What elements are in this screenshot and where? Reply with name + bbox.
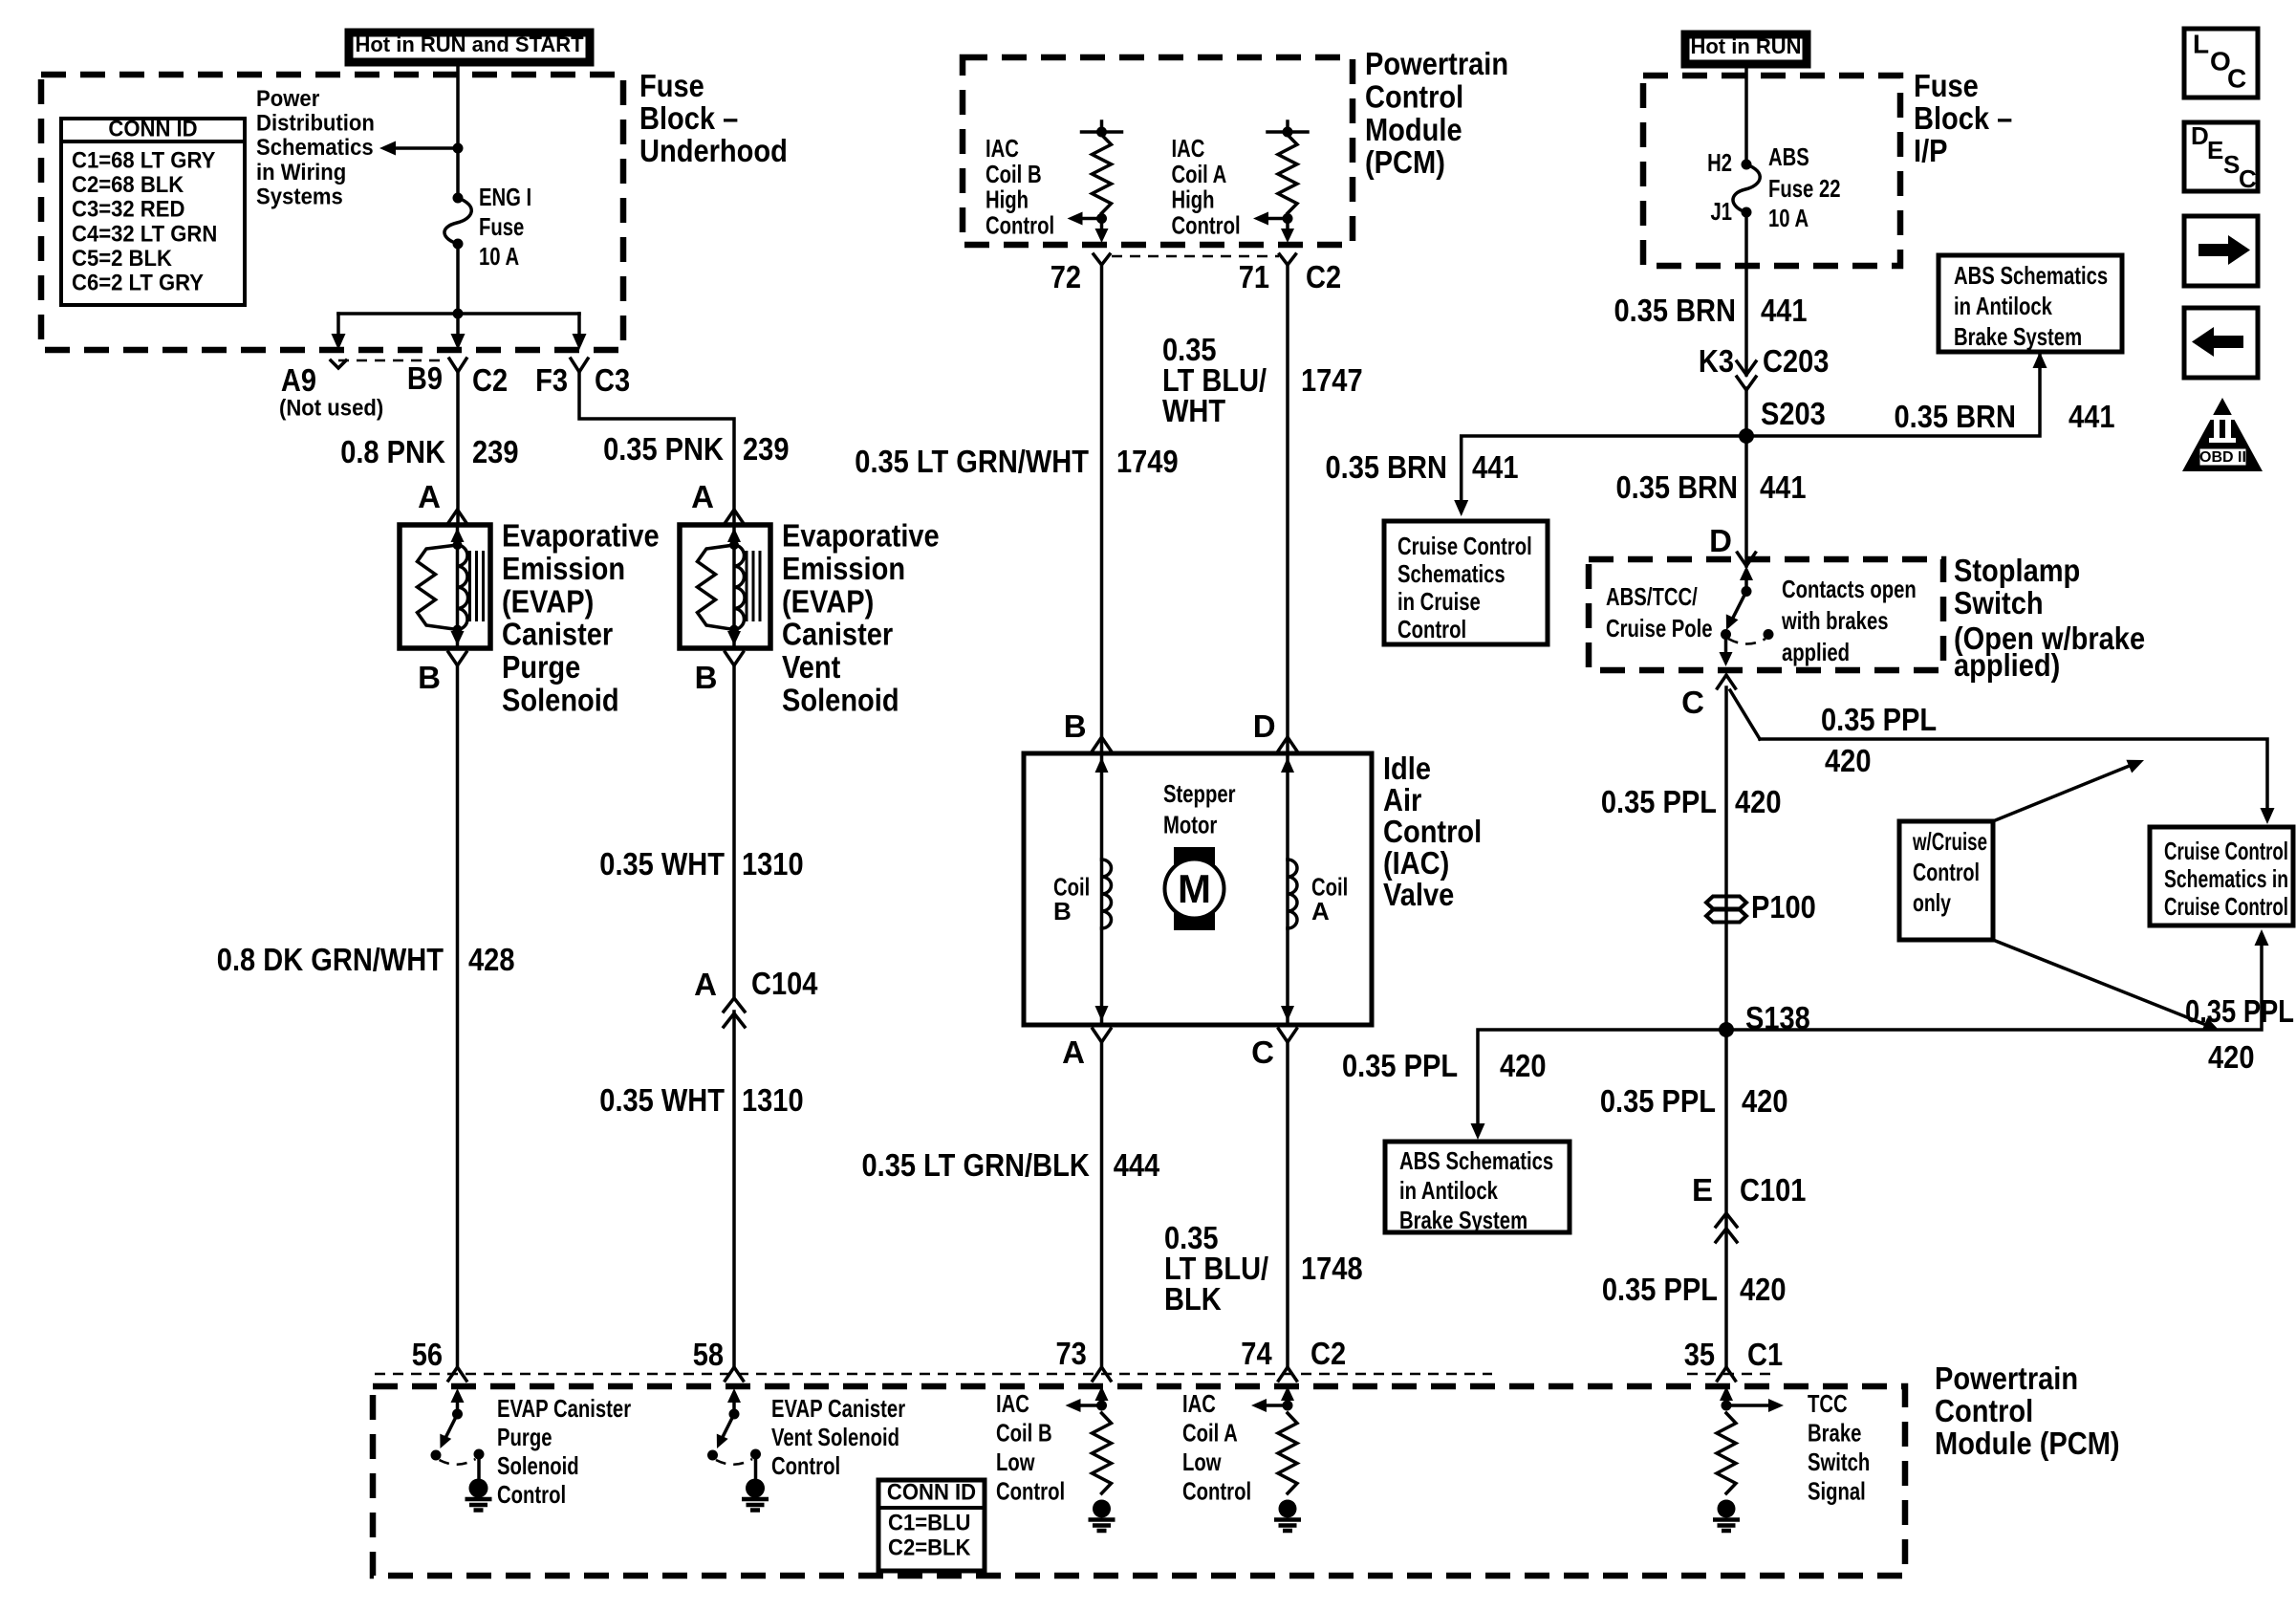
wire IAC coil A low (1748) — [1286, 1042, 1289, 1367]
sense arrow right — [1726, 1404, 1770, 1407]
svg-text:B: B — [1053, 897, 1072, 925]
svg-text:Block –: Block – — [639, 100, 738, 136]
svg-text:Canister: Canister — [782, 617, 893, 652]
thin dashed connector line A9-B9 — [338, 359, 447, 362]
svg-text:58: 58 — [693, 1337, 724, 1372]
svg-text:Power: Power — [256, 86, 319, 112]
svg-text:1749: 1749 — [1116, 444, 1179, 479]
label box: Hot in RUN and START — [349, 33, 590, 62]
connector chevron IAC pin C — [1279, 1029, 1297, 1042]
svg-text:A: A — [418, 479, 441, 514]
svg-text:IAC: IAC — [1172, 134, 1205, 163]
svg-text:Distribution: Distribution — [256, 111, 375, 137]
switch output arrow — [1724, 635, 1728, 653]
wire: fuse output to splice — [456, 244, 460, 314]
svg-text:C: C — [1681, 685, 1704, 720]
thin dashed connector line C2 (bottom) — [375, 1373, 1492, 1376]
svg-text:Control: Control — [1397, 615, 1466, 643]
reference box: ABS Schematics in Antilock Brake System (lower) — [1385, 1142, 1570, 1232]
svg-text:OBD II: OBD II — [2199, 449, 2246, 466]
svg-text:in Antilock: in Antilock — [1399, 1176, 1498, 1205]
svg-text:J1: J1 — [1711, 197, 1733, 226]
connector chevron PCM pin 35 — [1718, 1367, 1736, 1381]
svg-text:D: D — [2191, 121, 2209, 150]
connector chevron at vent solenoid pin A — [726, 510, 744, 523]
icon OBD II triangle — [2182, 398, 2263, 471]
splice S203 — [1739, 428, 1754, 444]
svg-text:C2: C2 — [472, 362, 508, 398]
icon box arrow right — [2184, 216, 2258, 286]
svg-text:Signal: Signal — [1808, 1477, 1866, 1506]
reference box: Cruise Control Schematics in Cruise Control — [1384, 521, 1548, 644]
svg-text:IAC: IAC — [1182, 1389, 1216, 1418]
arrow feed F3 — [577, 314, 581, 336]
svg-text:420: 420 — [2208, 1039, 2255, 1075]
svg-text:C1=68 LT GRY: C1=68 LT GRY — [72, 148, 215, 174]
svg-text:0.35 BRN: 0.35 BRN — [1895, 399, 2017, 434]
svg-text:C: C — [2239, 164, 2257, 193]
coil B winding — [1102, 860, 1112, 928]
svg-text:441: 441 — [1761, 293, 1808, 328]
wire purge B down to PCM pin 56 — [456, 665, 460, 1367]
svg-text:in Antilock: in Antilock — [1954, 292, 2052, 320]
branch wire to cruise control schematics (top right) — [1760, 739, 2267, 811]
svg-text:441: 441 — [1760, 469, 1807, 505]
connector chevron IAC pin D — [1279, 737, 1297, 751]
svg-text:A9: A9 — [281, 362, 316, 398]
IAC inner wire coil B side — [1100, 753, 1104, 1025]
svg-text:Air: Air — [1383, 782, 1421, 817]
svg-text:444: 444 — [1114, 1147, 1160, 1183]
svg-text:Control: Control — [986, 210, 1054, 239]
switch contact dot — [431, 1450, 442, 1461]
pull resistor — [1093, 1413, 1112, 1493]
svg-text:0.35 PPL: 0.35 PPL — [1342, 1048, 1458, 1083]
svg-text:0.8 DK GRN/WHT: 0.8 DK GRN/WHT — [217, 942, 444, 977]
svg-text:Cruise Control: Cruise Control — [1397, 532, 1532, 560]
svg-text:Evaporative: Evaporative — [782, 518, 940, 554]
svg-text:B: B — [695, 660, 718, 695]
svg-text:applied): applied) — [1954, 647, 2060, 683]
svg-text:420: 420 — [1742, 1083, 1788, 1119]
svg-text:0.35 PPL: 0.35 PPL — [1602, 1272, 1718, 1307]
svg-text:IAC: IAC — [986, 134, 1019, 163]
svg-text:Powertrain: Powertrain — [1935, 1361, 2078, 1396]
svg-text:10 A: 10 A — [479, 242, 519, 271]
wire S203 right branch to ABS schematics — [1746, 356, 2040, 436]
node dot and sense arrow — [1283, 213, 1293, 224]
svg-text:Fuse: Fuse — [1914, 68, 1979, 103]
connector chevron pin B — [448, 652, 466, 665]
driver switch feed arrow — [732, 1398, 736, 1414]
switch contact dot — [707, 1450, 718, 1461]
thin dashed connector line C1 (bottom) — [1687, 1373, 1773, 1376]
inline connector C104 chevrons — [724, 998, 745, 1012]
dashed throw arc — [440, 1459, 476, 1465]
svg-text:56: 56 — [412, 1337, 443, 1372]
stoplamp switch dashed box — [1589, 559, 1943, 670]
svg-text:Systems: Systems — [256, 184, 343, 209]
wire S138 right branch to cruise control schematics — [1726, 945, 2262, 1030]
svg-text:ABS Schematics: ABS Schematics — [1399, 1146, 1553, 1175]
wire S138 left branch to ABS schematics — [1478, 1030, 1726, 1124]
svg-text:71: 71 — [1239, 259, 1269, 294]
solenoid coil — [458, 545, 468, 630]
svg-text:C5=2 BLK: C5=2 BLK — [72, 246, 173, 272]
svg-text:0.35 WHT: 0.35 WHT — [599, 1082, 725, 1118]
connector chevron at PCM top — [1280, 254, 1296, 265]
svg-text:ENG I: ENG I — [479, 183, 531, 211]
wire below C104 to pin 58 — [732, 1012, 736, 1367]
pass-through grommet P100 — [1706, 897, 1746, 909]
svg-text:10 A: 10 A — [1768, 204, 1809, 232]
svg-text:Block –: Block – — [1914, 100, 2012, 136]
fuse ABS Fuse 22 10 A — [1742, 160, 1752, 170]
junction below ENG I fuse — [453, 309, 464, 319]
connector chevron B9/C2 — [449, 359, 466, 372]
svg-text:1310: 1310 — [742, 846, 804, 882]
svg-text:420: 420 — [1740, 1272, 1787, 1307]
svg-text:C104: C104 — [751, 966, 818, 1001]
svg-text:BLK: BLK — [1164, 1281, 1222, 1317]
svg-text:C6=2 LT GRY: C6=2 LT GRY — [72, 271, 204, 296]
sense arrow left — [1265, 1404, 1288, 1407]
svg-text:239: 239 — [743, 431, 790, 467]
ground — [1279, 1500, 1297, 1518]
pull resistor — [1717, 1413, 1736, 1493]
EVAP solenoid box — [400, 525, 490, 648]
svg-text:Control: Control — [1935, 1393, 2033, 1428]
sense feed arrow — [1724, 1398, 1728, 1405]
svg-text:S203: S203 — [1761, 396, 1826, 431]
icon box arrow left — [2184, 308, 2258, 378]
svg-text:F3: F3 — [535, 362, 568, 398]
svg-text:239: 239 — [472, 434, 519, 469]
svg-text:Idle: Idle — [1383, 751, 1431, 786]
svg-text:Canister: Canister — [502, 617, 613, 652]
svg-text:1748: 1748 — [1301, 1251, 1363, 1286]
svg-text:Stepper: Stepper — [1163, 779, 1236, 808]
connector chevron IAC pin B — [1093, 737, 1111, 751]
svg-text:M: M — [1178, 866, 1211, 911]
switch pivot dot — [452, 1409, 463, 1420]
svg-text:Coil B: Coil B — [996, 1419, 1052, 1448]
reference box: w/Cruise Control only — [1899, 821, 1993, 940]
svg-text:Control: Control — [1913, 858, 1980, 886]
wire pin C down to PCM pin 35 — [1724, 687, 1728, 1367]
svg-text:Brake System: Brake System — [1399, 1206, 1527, 1234]
solenoid resistance element — [698, 545, 735, 630]
svg-text:B9: B9 — [407, 360, 443, 396]
svg-text:A: A — [1311, 897, 1330, 925]
arrow feed B9 — [456, 314, 460, 336]
sense feed arrow — [1100, 1398, 1104, 1405]
node: tap to power distribution schematics — [453, 143, 464, 154]
svg-text:C: C — [2227, 63, 2246, 93]
svg-text:CONN ID: CONN ID — [887, 1480, 976, 1506]
svg-text:Purge: Purge — [502, 649, 580, 685]
wire S203 left branch to cruise control schematics — [1462, 436, 1746, 501]
solenoid core bars — [746, 551, 748, 621]
connector chevron IAC pin A — [1093, 1029, 1111, 1042]
thin dashed connector line at PCM top — [1112, 255, 1279, 258]
svg-text:0.35 LT GRN/BLK: 0.35 LT GRN/BLK — [862, 1147, 1090, 1183]
driver resistor (high control) — [1093, 135, 1112, 213]
svg-text:Vent Solenoid: Vent Solenoid — [771, 1423, 899, 1451]
svg-text:H2: H2 — [1707, 148, 1732, 177]
svg-text:Control: Control — [497, 1480, 566, 1509]
svg-text:Purge: Purge — [497, 1423, 552, 1451]
svg-text:Control: Control — [771, 1451, 840, 1480]
switch pivot dot — [729, 1409, 740, 1420]
svg-text:C203: C203 — [1763, 343, 1829, 379]
svg-text:EVAP Canister: EVAP Canister — [497, 1394, 631, 1423]
svg-text:Fuse 22: Fuse 22 — [1768, 174, 1841, 203]
svg-text:C2: C2 — [1306, 259, 1341, 294]
connector chevron pin B — [726, 652, 744, 665]
svg-text:Cruise Control: Cruise Control — [2164, 837, 2288, 865]
solenoid inner wire with arrows — [732, 525, 736, 648]
svg-text:CONN ID: CONN ID — [108, 117, 197, 142]
svg-text:D: D — [1253, 708, 1276, 744]
connector chevron at PCM top — [1094, 254, 1110, 265]
svg-text:Coil A: Coil A — [1172, 160, 1227, 188]
svg-text:1310: 1310 — [742, 1082, 804, 1118]
svg-text:ABS Schematics: ABS Schematics — [1954, 261, 2108, 290]
svg-text:w/Cruise: w/Cruise — [1912, 827, 1987, 856]
svg-text:B: B — [418, 660, 441, 695]
svg-text:Hot in RUN: Hot in RUN — [1690, 34, 1801, 58]
svg-text:WHT: WHT — [1162, 393, 1225, 428]
svg-text:Brake: Brake — [1808, 1419, 1861, 1448]
svg-text:Schematics in: Schematics in — [2164, 864, 2288, 893]
svg-text:0.35 BRN: 0.35 BRN — [1326, 449, 1448, 485]
connector chevron PCM pin 74 — [1279, 1367, 1297, 1381]
solenoid winding nodes — [729, 540, 739, 550]
CONN ID table (underhood) — [61, 119, 245, 305]
internal node bar — [1100, 121, 1104, 132]
svg-text:(PCM): (PCM) — [1365, 144, 1445, 180]
svg-text:Valve: Valve — [1383, 877, 1454, 912]
svg-text:in Cruise: in Cruise — [1397, 587, 1481, 616]
svg-text:0.35 WHT: 0.35 WHT — [599, 846, 725, 882]
svg-text:72: 72 — [1051, 259, 1081, 294]
svg-text:Switch: Switch — [1808, 1448, 1870, 1476]
svg-text:(EVAP): (EVAP) — [782, 583, 874, 619]
svg-text:A: A — [691, 479, 714, 514]
reference box: ABS Schematics in Antilock Brake System — [1939, 255, 2122, 352]
solenoid core bars — [468, 551, 471, 621]
svg-text:C3: C3 — [595, 362, 630, 398]
svg-text:Control: Control — [996, 1477, 1065, 1506]
internal node bar — [1286, 121, 1289, 132]
svg-text:Evaporative: Evaporative — [502, 518, 660, 554]
svg-text:Low: Low — [996, 1448, 1035, 1476]
wire 0.35 PNK 239 to vent solenoid — [579, 372, 734, 525]
svg-text:C2: C2 — [1310, 1336, 1346, 1371]
svg-text:441: 441 — [1472, 449, 1519, 485]
stepper motor symbol M — [1174, 847, 1215, 930]
svg-text:Underhood: Underhood — [639, 133, 788, 168]
wire: hot feed into ENG I fuse — [456, 64, 460, 198]
svg-text:74: 74 — [1241, 1336, 1272, 1371]
svg-text:B: B — [1064, 708, 1087, 744]
PCM bottom dashed box — [373, 1386, 1905, 1576]
svg-text:Solenoid: Solenoid — [782, 683, 899, 718]
svg-text:ABS: ABS — [1768, 142, 1809, 171]
svg-text:C2=BLK: C2=BLK — [888, 1535, 971, 1561]
IAC inner wire coil A side — [1286, 753, 1289, 1025]
svg-text:L: L — [2193, 29, 2209, 58]
svg-text:E: E — [1692, 1172, 1713, 1208]
svg-text:K3: K3 — [1699, 343, 1734, 379]
svg-text:Module (PCM): Module (PCM) — [1935, 1426, 2120, 1461]
pull resistor — [1278, 1413, 1297, 1493]
label box: Hot in RUN — [1685, 34, 1807, 64]
svg-text:applied: applied — [1782, 638, 1850, 666]
connector chevron F3/C3 — [571, 359, 588, 372]
switch blade — [1732, 592, 1746, 620]
wire C203 to S203 — [1744, 388, 1748, 566]
svg-text:428: 428 — [468, 942, 515, 977]
arrow to PCM connector — [1286, 219, 1289, 231]
svg-text:0.35 PPL: 0.35 PPL — [2185, 993, 2294, 1029]
svg-text:0.35 BRN: 0.35 BRN — [1616, 469, 1739, 505]
svg-text:only: only — [1913, 888, 1951, 917]
svg-text:C101: C101 — [1740, 1172, 1806, 1208]
svg-text:0.8 PNK: 0.8 PNK — [340, 434, 445, 469]
pointer arrow up-right — [1993, 765, 2132, 821]
branch diagonal from C — [1730, 690, 1760, 739]
svg-text:Powertrain: Powertrain — [1365, 46, 1508, 81]
connector chevron stoplamp pin C — [1718, 675, 1736, 688]
svg-text:Control: Control — [1365, 78, 1463, 114]
svg-text:Low: Low — [1182, 1448, 1222, 1476]
solenoid coil — [734, 545, 745, 630]
arrow feed A9 — [336, 314, 340, 336]
throw contact dot — [750, 1449, 761, 1460]
svg-text:Module: Module — [1365, 112, 1462, 147]
fuse block underhood dashed box — [41, 75, 623, 350]
node dot and sense arrow — [1096, 213, 1107, 224]
svg-text:S: S — [2223, 150, 2240, 179]
svg-text:73: 73 — [1056, 1336, 1087, 1371]
wire 0.8 PNK 239 to purge solenoid — [456, 372, 460, 525]
wire IAC coil A high (1747) — [1286, 265, 1289, 751]
CONN ID table (PCM) — [878, 1480, 985, 1571]
svg-text:P100: P100 — [1751, 889, 1816, 925]
svg-text:420: 420 — [1500, 1048, 1547, 1083]
svg-text:Brake System: Brake System — [1954, 322, 2082, 351]
PCM top dashed box — [963, 57, 1353, 245]
svg-text:with brakes: with brakes — [1781, 606, 1888, 635]
fuse block I/P dashed box — [1643, 76, 1900, 266]
svg-text:(IAC): (IAC) — [1383, 845, 1449, 881]
arrow to PCM connector — [1100, 219, 1104, 231]
wire into ABS fuse — [1744, 66, 1748, 164]
switch alternate-throw dashed arc — [1728, 639, 1765, 644]
svg-text:Stoplamp: Stoplamp — [1954, 553, 2080, 588]
IAC valve box — [1024, 753, 1372, 1025]
switch blade with arrow — [722, 1414, 734, 1439]
svg-text:Contacts open: Contacts open — [1782, 575, 1917, 603]
svg-text:35: 35 — [1684, 1337, 1715, 1372]
connector chevron stoplamp pin D — [1738, 553, 1756, 566]
svg-text:A: A — [694, 967, 717, 1002]
svg-text:C1: C1 — [1747, 1337, 1783, 1372]
svg-text:Fuse: Fuse — [479, 212, 524, 241]
pointer arrow down-right — [1993, 940, 2206, 1025]
wire vent B down to PCM pin 58 — [732, 665, 736, 996]
switch throw contact dot — [1764, 629, 1774, 640]
svg-text:Coil B: Coil B — [986, 160, 1042, 188]
svg-text:in Wiring: in Wiring — [256, 160, 346, 185]
wire IAC coil B low (444) — [1100, 1042, 1104, 1367]
switch pivot — [1742, 586, 1752, 597]
connector chevron at purge solenoid pin A — [448, 510, 466, 523]
svg-text:(Not used): (Not used) — [279, 396, 383, 422]
driver resistor (high control) — [1278, 135, 1297, 213]
svg-text:Control: Control — [1182, 1477, 1251, 1506]
icon box LOC — [2184, 29, 2258, 98]
svg-text:Schematics: Schematics — [256, 135, 374, 161]
inline connector C101 chevrons — [1716, 1213, 1737, 1227]
icon box DESC — [2184, 122, 2258, 191]
throw contact dot — [474, 1449, 485, 1460]
svg-text:C: C — [1251, 1034, 1274, 1070]
svg-text:I/P: I/P — [1914, 133, 1948, 168]
svg-text:420: 420 — [1825, 743, 1872, 778]
connector chevron PCM pin 73 — [1093, 1367, 1111, 1381]
inline connector C203 chevrons — [1737, 361, 1756, 375]
sense feed arrow — [1286, 1398, 1289, 1405]
connector chevron A9 (not used) — [331, 360, 346, 368]
svg-text:0.35 PNK: 0.35 PNK — [603, 431, 724, 467]
svg-text:Solenoid: Solenoid — [497, 1451, 579, 1480]
svg-text:Control: Control — [1172, 210, 1241, 239]
ground — [469, 1479, 488, 1498]
solenoid winding nodes — [453, 540, 463, 550]
svg-text:441: 441 — [2069, 399, 2115, 434]
switch contact — [1721, 629, 1731, 640]
svg-text:(EVAP): (EVAP) — [502, 583, 594, 619]
switch feed arrow — [1744, 577, 1748, 592]
svg-text:Coil A: Coil A — [1182, 1419, 1238, 1448]
node dot — [1096, 1401, 1107, 1411]
switch blade with arrow — [445, 1414, 458, 1439]
svg-text:Cruise Control: Cruise Control — [2164, 892, 2288, 921]
connector chevron PCM pin 56 — [448, 1367, 466, 1381]
svg-text:A: A — [1062, 1034, 1085, 1070]
svg-text:D: D — [1709, 523, 1732, 558]
svg-text:0.35 PPL: 0.35 PPL — [1600, 1083, 1716, 1119]
node dot — [1722, 1401, 1732, 1411]
EVAP solenoid box — [680, 525, 770, 648]
svg-text:ABS/TCC/: ABS/TCC/ — [1606, 582, 1698, 611]
svg-text:C4=32 LT GRN: C4=32 LT GRN — [72, 221, 217, 247]
svg-text:Control: Control — [1383, 814, 1482, 849]
svg-text:C2=68 BLK: C2=68 BLK — [72, 172, 184, 198]
svg-text:Motor: Motor — [1163, 811, 1217, 839]
svg-text:0.35 PPL: 0.35 PPL — [1821, 702, 1937, 737]
svg-text:Fuse: Fuse — [639, 68, 704, 103]
svg-text:Solenoid: Solenoid — [502, 683, 619, 718]
svg-text:Emission: Emission — [782, 551, 905, 586]
reference box: Cruise Control Schematics in Cruise Control (right) — [2150, 827, 2293, 925]
ground — [746, 1479, 765, 1498]
dashed throw arc — [716, 1459, 752, 1465]
svg-text:TCC: TCC — [1808, 1389, 1848, 1418]
